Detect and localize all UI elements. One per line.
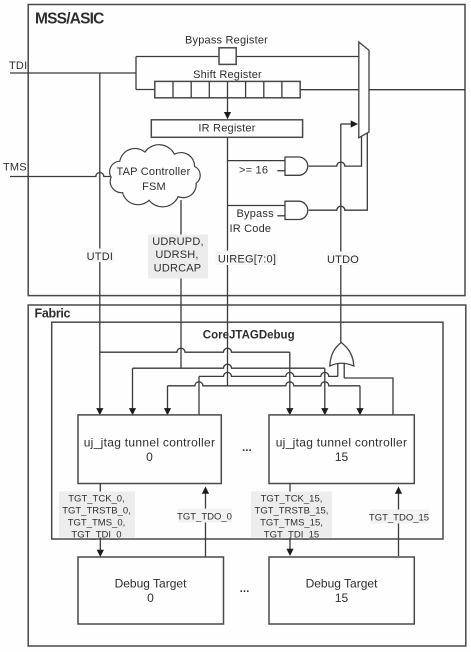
svg-text:TGT_TCK_15,: TGT_TCK_15, bbox=[261, 494, 323, 505]
svg-text:UTDO: UTDO bbox=[327, 254, 359, 266]
wire TGT_TDO_15 up arrow bbox=[395, 487, 402, 557]
svg-text:...: ... bbox=[242, 442, 252, 454]
wire UTDI vertical bbox=[99, 73, 101, 352]
svg-text:TGT_TCK_0,: TGT_TCK_0, bbox=[68, 494, 125, 505]
svg-text:Bypass Register: Bypass Register bbox=[185, 35, 268, 47]
wire TDO-15 bbox=[344, 378, 393, 415]
AND gate G1 input from UIREG bbox=[228, 160, 286, 162]
MSS/ASIC enclosure bbox=[28, 5, 465, 296]
wire UDR down arrow into controller 0 bbox=[129, 368, 136, 415]
wire UIREG branch with hops bbox=[168, 382, 361, 386]
wire UTDO vertical bbox=[340, 124, 342, 343]
svg-text:TGT_TDI_15: TGT_TDI_15 bbox=[264, 530, 319, 541]
svg-text:TDI: TDI bbox=[9, 60, 27, 72]
wire UIREG down arrow into controller 15 bbox=[356, 386, 363, 416]
svg-text:uj_jtag tunnel controller: uj_jtag tunnel controller bbox=[84, 436, 216, 450]
TAP controller FSM cloud bbox=[110, 145, 201, 207]
label UTDO bbox=[327, 252, 359, 267]
wire TDO-0 vertical bbox=[198, 376, 200, 415]
svg-text:TGT_TRSTB_0,: TGT_TRSTB_0, bbox=[62, 506, 131, 517]
svg-text:UDRCAP: UDRCAP bbox=[154, 263, 202, 275]
label TGT_TDO_15 bbox=[369, 510, 429, 524]
debug target 0 box bbox=[78, 557, 224, 624]
wire G2 output with hop over UTDO bbox=[309, 133, 368, 211]
wire bypass register output bbox=[236, 56, 359, 58]
tunnel controller 0 box bbox=[78, 415, 221, 484]
svg-text:UIREG[7:0]: UIREG[7:0] bbox=[218, 254, 276, 266]
wire UTDI branch with hops bbox=[100, 348, 290, 352]
bypass register box bbox=[219, 48, 236, 65]
wire TDO-0 horizontal with hops bbox=[199, 372, 338, 376]
svg-text:UTDI: UTDI bbox=[87, 251, 113, 263]
svg-text:MSS/ASIC: MSS/ASIC bbox=[35, 11, 104, 28]
wire UIREG down arrow into controller 0 bbox=[164, 386, 171, 416]
label UDRUPD UDRSH UDRCAP bbox=[148, 235, 208, 279]
wire UTDO into mux with arrow bbox=[341, 120, 358, 127]
AND gate G1 bbox=[285, 157, 308, 175]
IR register box bbox=[151, 120, 302, 138]
wire UTDI down arrow into controller 0 bbox=[96, 352, 103, 415]
label TGT_TCK_15 TGT_TRSTB_15 TGT_TMS_15 TGT_TDI_15 bbox=[251, 492, 332, 541]
label TGT_TCK_0 TGT_TRSTB_0 TGT_TMS_0 TGT_TDI_0 bbox=[59, 492, 135, 541]
wire bypass register input bbox=[136, 56, 219, 58]
svg-text:TGT_TDI_0: TGT_TDI_0 bbox=[71, 530, 121, 541]
debug target 15 box bbox=[269, 557, 414, 624]
wire shift register to IR register with arrow bbox=[224, 98, 231, 120]
wire TDI split vertical bbox=[135, 57, 137, 90]
svg-text:Shift Register: Shift Register bbox=[193, 69, 262, 81]
svg-text:TMS: TMS bbox=[3, 162, 27, 174]
wire G1 output with hop over UTDO bbox=[309, 136, 362, 166]
wire TGT_TDO_0 up arrow bbox=[202, 487, 209, 558]
wire TDO output bbox=[369, 89, 465, 91]
label UIREG[7:0] bbox=[216, 251, 279, 266]
svg-text:>= 16: >= 16 bbox=[239, 165, 268, 177]
wire UDR vertical from cloud bbox=[180, 200, 182, 368]
wire OR input left stub bbox=[337, 364, 339, 377]
wire UDR down arrow into controller 15 bbox=[321, 368, 328, 415]
AND gate G2 bbox=[285, 201, 308, 219]
wire OR input right stub bbox=[343, 364, 345, 378]
Fabric enclosure bbox=[28, 305, 466, 646]
mux M1 bbox=[359, 42, 369, 138]
wire UIREG vertical bbox=[227, 137, 229, 385]
svg-text:UDRSH,: UDRSH, bbox=[155, 249, 198, 261]
svg-text:TGT_TDO_0: TGT_TDO_0 bbox=[177, 512, 232, 523]
svg-text:FSM: FSM bbox=[142, 181, 166, 193]
svg-text:0: 0 bbox=[147, 591, 154, 605]
svg-text:Debug Target: Debug Target bbox=[306, 577, 378, 591]
wire TMS with hop over UTDI bbox=[10, 173, 114, 177]
svg-text:Bypass: Bypass bbox=[237, 208, 275, 220]
svg-text:Debug Target: Debug Target bbox=[115, 577, 187, 591]
wire TGT bundle 0 down arrow bbox=[97, 484, 104, 558]
AND gate G2 stub input bbox=[277, 215, 285, 217]
svg-text:IR Register: IR Register bbox=[198, 123, 255, 135]
label Bypass IR Code bbox=[230, 208, 275, 235]
AND gate G2 input from UIREG bbox=[228, 205, 286, 207]
AND gate G1 stub input bbox=[277, 170, 285, 172]
svg-text:0: 0 bbox=[146, 450, 153, 464]
svg-text:UDRUPD,: UDRUPD, bbox=[152, 236, 204, 248]
label TGT_TDO_0 bbox=[177, 509, 232, 523]
svg-text:TGT_TDO_15: TGT_TDO_15 bbox=[369, 513, 429, 524]
OR gate G3 bbox=[330, 343, 354, 367]
svg-text:Fabric: Fabric bbox=[35, 307, 71, 321]
svg-text:15: 15 bbox=[335, 450, 349, 464]
svg-text:TGT_TRSTB_15,: TGT_TRSTB_15, bbox=[255, 506, 329, 517]
wire UDR branch with hop bbox=[133, 364, 325, 368]
svg-text:TAP Controller: TAP Controller bbox=[117, 166, 191, 178]
label UTDI bbox=[86, 249, 114, 263]
CoreJTAGDebug box bbox=[52, 322, 443, 539]
shift register row bbox=[155, 81, 300, 97]
tunnel controller 15 box bbox=[269, 415, 414, 484]
wire shift register input bbox=[136, 89, 155, 91]
svg-text:TGT_TMS_15,: TGT_TMS_15, bbox=[260, 518, 323, 529]
svg-text:uj_jtag tunnel controller: uj_jtag tunnel controller bbox=[276, 436, 408, 450]
wire TDI bbox=[10, 72, 136, 74]
svg-text:CoreJTAGDebug: CoreJTAGDebug bbox=[203, 329, 295, 341]
svg-text:IR Code: IR Code bbox=[230, 223, 272, 235]
svg-text:TGT_TMS_0,: TGT_TMS_0, bbox=[68, 518, 126, 529]
wire shift register output bbox=[300, 89, 359, 91]
wire UTDI down arrow into controller 15 bbox=[286, 352, 293, 415]
svg-text:15: 15 bbox=[335, 591, 349, 605]
svg-text:...: ... bbox=[240, 583, 250, 595]
wire TGT bundle 15 down arrow bbox=[286, 484, 293, 557]
